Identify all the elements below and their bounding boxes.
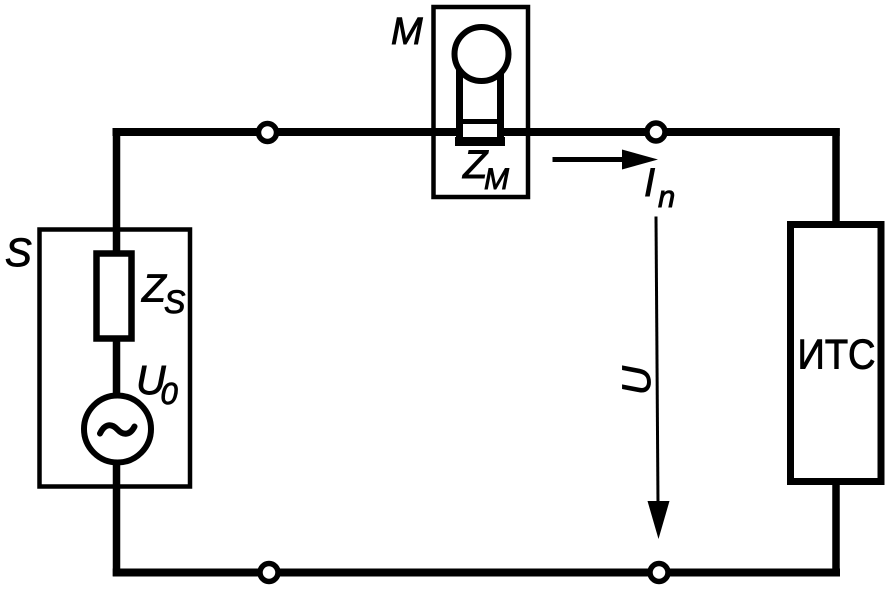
- sine tilde inside U0: [100, 425, 135, 433]
- voltage arrow U head: [648, 501, 670, 539]
- svg-text:S: S: [5, 231, 32, 275]
- current arrow In head: [622, 150, 658, 170]
- wire: left vertical from top wire through source box to bottom wire: [113, 128, 121, 576]
- node: bottom-right terminal: [650, 564, 668, 582]
- box S (source enclosure): [40, 230, 191, 487]
- node: top-left terminal: [259, 124, 277, 142]
- current arrow In shaft: [553, 157, 629, 162]
- wire: bottom horizontal bus: [113, 569, 840, 577]
- wire: right vertical upper (top bus to ITS box): [832, 128, 840, 226]
- box M (microphone enclosure): [434, 7, 529, 197]
- node: bottom-left terminal: [260, 564, 278, 582]
- node: top-right terminal: [647, 123, 665, 141]
- load box ITS: [791, 225, 882, 482]
- source U0 (sine source circle): [84, 396, 151, 463]
- svg-text:ИТС: ИТС: [798, 331, 876, 378]
- microphone base bar: [455, 137, 505, 146]
- svg-text:S: S: [164, 284, 185, 320]
- impedance ZS (rectangle): [97, 254, 132, 339]
- wire: top horizontal bus: [113, 128, 840, 136]
- microphone head circle: [455, 27, 509, 81]
- microphone stem sides: [460, 62, 501, 137]
- microphone stem white backing: [456, 64, 504, 143]
- svg-text:n: n: [658, 179, 675, 214]
- svg-text:0: 0: [161, 376, 178, 411]
- svg-text:M: M: [484, 163, 509, 196]
- svg-text:M: M: [391, 11, 423, 53]
- wire: right vertical lower (ITS box to bottom bus): [832, 482, 840, 577]
- svg-text:U: U: [615, 365, 659, 395]
- svg-text:I: I: [644, 161, 655, 205]
- microphone stem divider: [456, 119, 504, 124]
- voltage arrow U line: [656, 217, 658, 506]
